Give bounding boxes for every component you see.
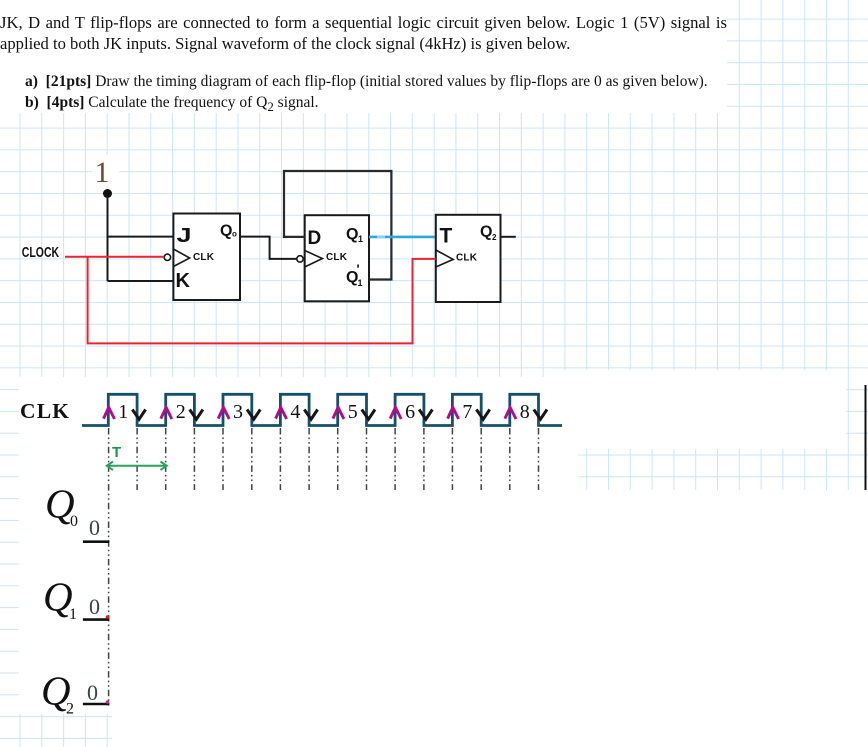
period arrow green <box>107 462 167 471</box>
pulse numbers 1 to 8 <box>118 401 530 423</box>
T flip-flop U3 <box>436 215 501 302</box>
clock bubble U1 <box>164 254 170 260</box>
wire: clock net red trunk <box>88 257 436 344</box>
white panel: CLK waveform band left <box>19 377 563 446</box>
junction dot: logic 1 node <box>103 189 112 198</box>
svg-text:J: J <box>177 224 192 247</box>
svg-text:CLK: CLK <box>456 253 478 264</box>
svg-text:1: 1 <box>69 606 77 623</box>
clock bubble U2 <box>297 256 303 262</box>
svg-text:CLK: CLK <box>326 252 348 263</box>
item a <box>25 73 708 91</box>
wire: Q0 output to D input <box>240 237 297 259</box>
svg-text:1: 1 <box>95 156 110 189</box>
white panel: problem text background <box>0 0 727 113</box>
svg-text:1: 1 <box>358 278 363 288</box>
rising edge arrows magenta <box>104 407 517 419</box>
svg-text:Q: Q <box>480 224 492 241</box>
wire: Q1 to T input blue <box>369 236 436 239</box>
signal label Q2 <box>41 667 109 717</box>
svg-text:7: 7 <box>462 401 472 423</box>
svg-text:0: 0 <box>70 513 78 530</box>
svg-text:T: T <box>112 444 121 461</box>
svg-text:Q: Q <box>346 226 358 243</box>
svg-text:0: 0 <box>87 680 98 705</box>
svg-text:T: T <box>440 225 453 248</box>
svg-text:K: K <box>176 270 191 292</box>
svg-text:2: 2 <box>176 401 186 423</box>
svg-text:': ' <box>357 262 360 277</box>
svg-text:0: 0 <box>89 515 100 540</box>
svg-text:5: 5 <box>348 401 358 423</box>
svg-text:0: 0 <box>89 594 100 619</box>
svg-text:Q: Q <box>220 223 232 240</box>
wire: logic 1 vertical to J/K <box>107 196 109 281</box>
node: logic-1 source label <box>92 155 119 189</box>
wire: J input <box>108 236 174 238</box>
svg-text:CLK: CLK <box>20 399 70 423</box>
svg-text:6: 6 <box>405 401 415 423</box>
wire: clock to JK bubble red <box>65 256 164 258</box>
JK flip-flop U1 <box>173 214 240 301</box>
white panel: below waveform left <box>19 446 578 490</box>
signal label Q0 <box>45 481 109 542</box>
D flip-flop U2 <box>305 215 369 301</box>
white panel: bottom strip <box>112 714 868 747</box>
svg-text:8: 8 <box>520 401 530 423</box>
wire: Q2 output <box>501 236 516 238</box>
svg-text:4: 4 <box>290 401 300 423</box>
item b <box>25 94 319 116</box>
svg-text:CLOCK: CLOCK <box>22 243 60 260</box>
long dashed line from first rising edge <box>108 428 110 708</box>
white panel: CLK waveform band right <box>562 370 846 449</box>
svg-text:1: 1 <box>358 234 363 244</box>
svg-text:2: 2 <box>66 701 74 718</box>
falling edge arrows black <box>132 410 547 420</box>
svg-text:1: 1 <box>118 401 128 423</box>
clock waveform trace <box>82 394 562 425</box>
signal label Q1 <box>43 574 109 624</box>
timing edge dashed lines <box>137 428 538 490</box>
svg-text:D: D <box>308 228 322 249</box>
svg-text:CLK: CLK <box>193 252 215 263</box>
screenshot edge line right <box>865 385 867 490</box>
wire: blue highlight segment <box>377 236 385 239</box>
svg-text:3: 3 <box>233 401 243 423</box>
svg-text:o: o <box>232 230 237 239</box>
svg-text:2: 2 <box>492 233 497 242</box>
problem statement paragraph <box>0 13 727 54</box>
wire: Q1-bar feedback loop to D <box>284 171 391 280</box>
wire: K input <box>108 280 174 282</box>
white panel: bottom wide <box>19 490 868 714</box>
